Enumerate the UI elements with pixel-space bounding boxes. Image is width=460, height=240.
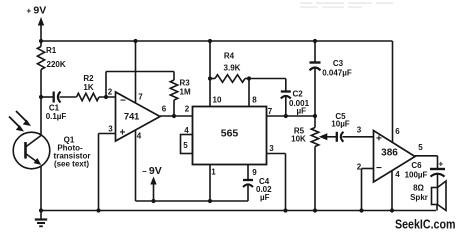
svg-text:565: 565: [221, 128, 239, 140]
svg-text:µF: µF: [260, 193, 270, 202]
svg-text:0.1µF: 0.1µF: [46, 112, 67, 121]
node pin2/feedback junction: [104, 95, 108, 99]
svg-text:C3: C3: [333, 59, 344, 68]
svg-text:4: 4: [184, 126, 189, 135]
svg-text:−: −: [376, 163, 382, 174]
+9V supply arrow and label: [27, 5, 47, 42]
faint watermark text top-right: [300, 2, 393, 8]
node ground junction 565 pin3: [283, 208, 287, 212]
svg-text:µF: µF: [297, 107, 307, 116]
svg-text:(see text): (see text): [54, 160, 89, 169]
wire R4 node to C2: [249, 78, 286, 80]
wire R2 to 741 pin2: [99, 96, 116, 98]
svg-text:+: +: [438, 160, 443, 169]
capacitor C6 100uF: [405, 160, 445, 180]
svg-text:5: 5: [183, 141, 188, 150]
svg-text:SeekIC.com: SeekIC.com: [395, 217, 456, 232]
transistor Q1 phototransistor: [13, 132, 90, 169]
capacitor C3 0.047uF: [310, 41, 352, 116]
svg-text:C6: C6: [411, 161, 422, 170]
light arrows into Q1: [9, 111, 31, 132]
capacitor C5 10uF: [331, 112, 350, 142]
wire 565 pin1 down: [209, 165, 211, 202]
node ground junction 386 pin4: [390, 208, 394, 212]
wire R1 to C1 node: [40, 70, 42, 98]
svg-text:Spkr: Spkr: [410, 193, 428, 202]
resistor R4 3.9K: [215, 52, 245, 83]
node R4 left junction: [208, 76, 212, 80]
ground symbol: [35, 211, 47, 227]
svg-text:+: +: [376, 134, 382, 145]
svg-text:1K: 1K: [83, 83, 93, 92]
svg-text:3.9K: 3.9K: [224, 64, 241, 73]
node junction R4/pin10 tap: [208, 39, 212, 43]
node pin1 junction: [208, 199, 212, 203]
wire 565 pin7 to R5 node: [267, 115, 316, 117]
capacitor C4 0.02uF: [243, 165, 272, 203]
svg-text:1M: 1M: [180, 88, 191, 97]
capacitor C1 0.1uF: [46, 92, 67, 122]
wire 565 pin8 down: [248, 79, 250, 107]
svg-text:5: 5: [418, 143, 423, 152]
svg-text:100µF: 100µF: [405, 171, 428, 180]
wire 741 pin4 down: [135, 131, 137, 202]
wire speaker to ground rail: [436, 205, 438, 211]
wire feedback top: [106, 71, 174, 73]
wire +9V to R1: [40, 41, 42, 47]
resistor R3 1M: [170, 79, 191, 101]
wire node to Q1 collector: [40, 97, 42, 135]
node R1/C1/Q1 junction: [39, 95, 43, 99]
node R4/pin8 junction: [247, 76, 251, 80]
svg-text:10K: 10K: [291, 135, 306, 144]
wire R3 to output: [173, 100, 175, 116]
wire feedback up: [105, 72, 107, 98]
svg-text:− 9V: − 9V: [142, 165, 162, 177]
wire -9V line: [136, 200, 249, 202]
svg-text:2: 2: [108, 88, 113, 97]
op-amp U3 386: [374, 131, 416, 183]
node C3/R5 junction: [313, 114, 317, 118]
resistor R2 1K: [77, 74, 100, 101]
svg-text:4: 4: [137, 132, 142, 141]
wire node to C1: [41, 96, 53, 98]
svg-text:C2: C2: [293, 90, 304, 99]
svg-text:4: 4: [395, 170, 400, 179]
node +9V rail left junction: [39, 39, 43, 43]
speaker 8ohm: [410, 181, 446, 211]
node -9V junction: [151, 199, 155, 203]
op-amp U1 741: [116, 92, 161, 141]
wire 741 pin7 to +9V rail: [135, 41, 137, 103]
wire R4 right: [245, 78, 249, 80]
svg-text:3: 3: [108, 125, 113, 134]
wire ground rail: [39, 210, 436, 212]
wire 741 pin3 to ground: [99, 133, 116, 135]
pins 4-5 shorting box (565): [181, 126, 193, 154]
node ground junction R5: [313, 208, 317, 212]
svg-text:7: 7: [138, 93, 143, 102]
svg-text:8: 8: [252, 96, 257, 105]
svg-text:7: 7: [268, 107, 273, 116]
IC U2 565 PLL: [193, 107, 267, 165]
wire 741 out to 565 pin2: [160, 115, 193, 117]
wire 565 pin3 to ground: [267, 153, 286, 155]
svg-text:0.047µF: 0.047µF: [322, 69, 352, 78]
wire 386 pin2 to ground: [362, 168, 374, 170]
wire 565 pin10 to rail: [209, 41, 211, 107]
wire C1 to R2: [60, 96, 77, 98]
svg-text:10µF: 10µF: [331, 120, 350, 129]
wire R4 left: [210, 78, 215, 80]
svg-text:+ 9V: + 9V: [27, 5, 47, 17]
capacitor C2 0.001uF: [281, 79, 310, 117]
node ground junction pin3: [96, 208, 100, 212]
svg-text:R2: R2: [83, 74, 94, 83]
svg-text:386: 386: [381, 148, 398, 159]
wire 386 pin4 to ground: [391, 171, 393, 211]
svg-text:6: 6: [162, 105, 167, 114]
svg-text:−: −: [120, 96, 126, 107]
-9V supply arrow and label: [142, 165, 162, 201]
svg-text:10: 10: [213, 96, 222, 105]
node junction 741 pin7 tap: [133, 39, 137, 43]
svg-text:220K: 220K: [47, 60, 66, 69]
svg-text:1: 1: [211, 168, 216, 177]
wire +9V top rail: [41, 40, 393, 42]
svg-text:R3: R3: [180, 79, 191, 88]
node C2/pin7 junction: [284, 114, 288, 118]
node junction C3 tap: [313, 39, 317, 43]
svg-text:9: 9: [252, 168, 257, 177]
wire C5 to 386 pin3: [342, 136, 373, 138]
resistor R1: [37, 46, 65, 70]
wire 386 pin5 output: [415, 155, 438, 157]
svg-text:741: 741: [124, 112, 140, 123]
svg-text:6: 6: [395, 127, 400, 136]
wire Q1 emitter to ground rail: [40, 166, 42, 210]
svg-text:3: 3: [269, 144, 274, 153]
wire 386 pin6 to +9V rail: [392, 41, 394, 143]
svg-text:R1: R1: [46, 46, 57, 55]
svg-text:8Ω: 8Ω: [413, 184, 424, 193]
svg-text:+: +: [120, 128, 126, 139]
svg-text:3: 3: [357, 126, 362, 135]
node R3/output junction: [172, 114, 176, 118]
potentiometer R5 10K: [291, 116, 336, 211]
svg-text:2: 2: [185, 105, 190, 114]
node ground junction Q1: [39, 208, 43, 212]
node ground junction 386 pin2: [359, 208, 363, 212]
wire C6 to speaker: [437, 175, 439, 188]
wire to R3 top: [173, 72, 175, 81]
svg-text:R4: R4: [224, 52, 235, 61]
